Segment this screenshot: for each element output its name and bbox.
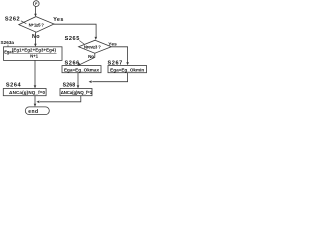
arrowhead into S262 [34,14,37,17]
svg-text:Nrev≥3 ?: Nrev≥3 ? [84,44,101,49]
svg-text:ΔNCa(g)NQ_f=0: ΔNCa(g)NQ_f=0 [9,90,45,95]
svg-text:S263a: S263a [1,40,15,45]
svg-text:S266: S266 [65,61,80,67]
svg-text:N+1: N+1 [30,54,38,59]
svg-text:Ega=Eg_Okmin: Ega=Eg_Okmin [110,67,144,72]
svg-text:S268: S268 [63,83,76,89]
fraction bar [12,52,57,54]
arrowhead into S266 [78,62,81,65]
wire S264 to end [34,96,36,106]
decision S262 diamond [19,17,54,33]
svg-text:No: No [88,54,94,59]
arrowhead merge into end line [36,101,39,104]
process S268 box [60,89,92,96]
leader S265 [79,41,84,45]
svg-text:S262: S262 [5,16,20,22]
end terminator [25,107,49,115]
wire F to S262 [35,7,37,15]
svg-text:(Eg1+Eg2+Eg3+Eg4): (Eg1+Eg2+Eg3+Eg4) [12,47,57,52]
svg-text:Ega=Eg_Okmax: Ega=Eg_Okmax [64,67,100,72]
svg-text:F: F [35,2,38,6]
arrowhead merge from S267 [89,80,92,83]
svg-text:No: No [32,34,40,40]
svg-text:ΔNCa(g)NQ_f=1: ΔNCa(g)NQ_f=1 [61,90,93,95]
svg-text:Yes: Yes [53,17,64,23]
wire S266 to S268 [77,73,79,87]
arrowhead into S265 [95,37,98,40]
arrowhead into S264 [34,85,37,88]
arrowhead into end [34,104,37,107]
wire S268 to merge above end [40,96,81,102]
wire Yes S262 to S265 [54,24,96,38]
leader S262 [21,21,26,24]
arrowhead into S263a [34,44,37,47]
svg-text:S264: S264 [6,83,22,89]
svg-text:N+1≥5 ?: N+1≥5 ? [29,23,45,28]
wire No S265 to S266 [78,53,95,65]
svg-text:S267: S267 [108,60,123,66]
svg-text:end: end [28,109,38,115]
process S264 box [3,89,46,96]
decision S265 diamond [79,40,112,53]
connector F circle [33,1,39,7]
arrowhead into S268 [77,85,80,88]
svg-text:S265: S265 [65,36,80,42]
svg-text:Yes: Yes [108,41,117,47]
arrowhead into S267 [126,62,129,65]
wire S263a to S264 [34,60,36,86]
leader S263a [7,45,9,47]
wire S267 merge arrow toward S266 line [92,73,127,82]
wire Yes S265 to S267 [111,47,127,64]
wire No S262 to S263a [34,32,36,45]
process S266 box [62,66,101,73]
process S263a box [4,47,63,61]
process S267 box [108,66,147,73]
